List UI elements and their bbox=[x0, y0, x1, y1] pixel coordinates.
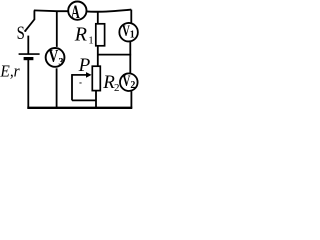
svg-text:2: 2 bbox=[130, 80, 135, 91]
switch S upper lead bbox=[33, 10, 35, 19]
wire battery to bottom-left corner bbox=[27, 59, 29, 107]
voltmeter V2 circle bbox=[120, 73, 138, 91]
svg-text:2: 2 bbox=[114, 82, 120, 94]
wire R2 to bottom bbox=[95, 91, 97, 108]
scan speck near slider bbox=[79, 82, 81, 84]
node V3 top junction bbox=[56, 11, 58, 47]
voltmeter V1 circle bbox=[119, 23, 138, 42]
wire top to R1 bbox=[97, 11, 99, 24]
svg-text:P: P bbox=[78, 55, 91, 76]
svg-text:A: A bbox=[71, 2, 80, 23]
battery E,r long plate bbox=[19, 53, 40, 55]
wire slider bracket bottom bbox=[72, 99, 96, 101]
svg-text:V: V bbox=[49, 46, 59, 66]
wire top-right corner down to V1 bbox=[130, 10, 132, 23]
svg-text:S: S bbox=[17, 23, 25, 44]
wire V1 to V2 bbox=[129, 42, 131, 73]
wire V2 to bottom-right corner bbox=[130, 91, 132, 108]
svg-text:3: 3 bbox=[58, 57, 63, 68]
switch S pivot dot bbox=[24, 30, 26, 32]
svg-text:R: R bbox=[74, 24, 87, 46]
battery E,r short plate bbox=[24, 57, 34, 60]
switch S blade bbox=[26, 19, 35, 31]
potentiometer slider arrow shaft bbox=[72, 74, 87, 76]
ammeter A circle bbox=[68, 2, 86, 20]
svg-text:1: 1 bbox=[130, 30, 135, 41]
wire bottom bbox=[27, 107, 132, 109]
wire R1 to junction bbox=[97, 46, 99, 66]
wire ammeter to top-right corner bbox=[87, 10, 132, 12]
wire top-left segment bbox=[34, 9, 68, 12]
resistor R2 box bbox=[92, 66, 100, 90]
wire slider bracket vertical bbox=[71, 74, 73, 100]
resistor R1 box bbox=[96, 24, 105, 46]
wire V3 to bottom bbox=[56, 68, 58, 108]
voltmeter V3 circle bbox=[46, 48, 65, 67]
background bbox=[0, 0, 143, 114]
wire junction to V branch bbox=[98, 54, 131, 56]
svg-text:E,r: E,r bbox=[0, 61, 20, 80]
potentiometer slider arrowhead bbox=[86, 72, 92, 78]
switch S lower lead bbox=[27, 36, 29, 54]
svg-text:1: 1 bbox=[88, 35, 94, 47]
